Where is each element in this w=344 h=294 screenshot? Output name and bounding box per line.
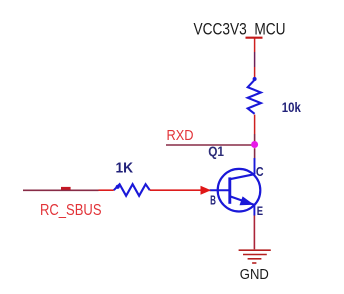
ground symbol bar 3 [248,258,262,260]
transistor Q1 emitter diagonal [230,196,255,205]
transistor Q1 base bar [228,177,231,203]
base input arrow [201,186,212,195]
svg-text:RXD: RXD [167,128,194,144]
pin dot resistor 10k top [253,77,257,81]
wire RXD horizontal [166,144,252,146]
svg-text:RC_SBUS: RC_SBUS [40,202,102,219]
ground symbol bar 1 [239,249,271,251]
junction dot node RXD [251,141,258,148]
resistor 1K body [114,184,150,196]
transistor Q1 circle [218,169,261,212]
svg-text:GND: GND [240,266,269,283]
wire to resistor R top pin [254,67,256,80]
ground symbol bar 2 [243,254,267,256]
resistor 1K left pin (red) [99,189,114,191]
svg-text:1K: 1K [116,160,134,176]
svg-text:C: C [256,165,264,179]
wire middle dark segment [254,52,256,67]
wire VCC to R top (red pin segment) [254,39,256,53]
wire dash mark [61,187,71,190]
svg-text:B: B [210,192,216,207]
transistor Q1 base lead [210,189,229,191]
resistor 10k body [248,80,261,114]
pin dot resistor 1K left [116,185,120,189]
svg-text:VCC3V3_MCU: VCC3V3_MCU [194,20,286,38]
wire emitter to ground [253,216,255,250]
svg-text:E: E [257,206,264,218]
ground symbol bar 4 [252,262,256,264]
transistor Q1 emitter pin (blue) [253,205,255,216]
transistor Q1 emitter arrow [240,196,255,205]
svg-text:10k: 10k [282,100,301,115]
wire to junction [254,134,256,142]
transistor Q1 collector pin (blue) [254,158,256,174]
wire 1K to base (red) [150,189,203,191]
wire RC_SBUS left segment [23,189,99,191]
wire junction to collector pin [254,148,256,158]
svg-text:Q1: Q1 [208,143,224,159]
wire R bottom pin (red) [254,115,256,134]
power bar symbol VCC3V3_MCU [246,37,263,39]
transistor Q1 collector diagonal [230,174,255,179]
